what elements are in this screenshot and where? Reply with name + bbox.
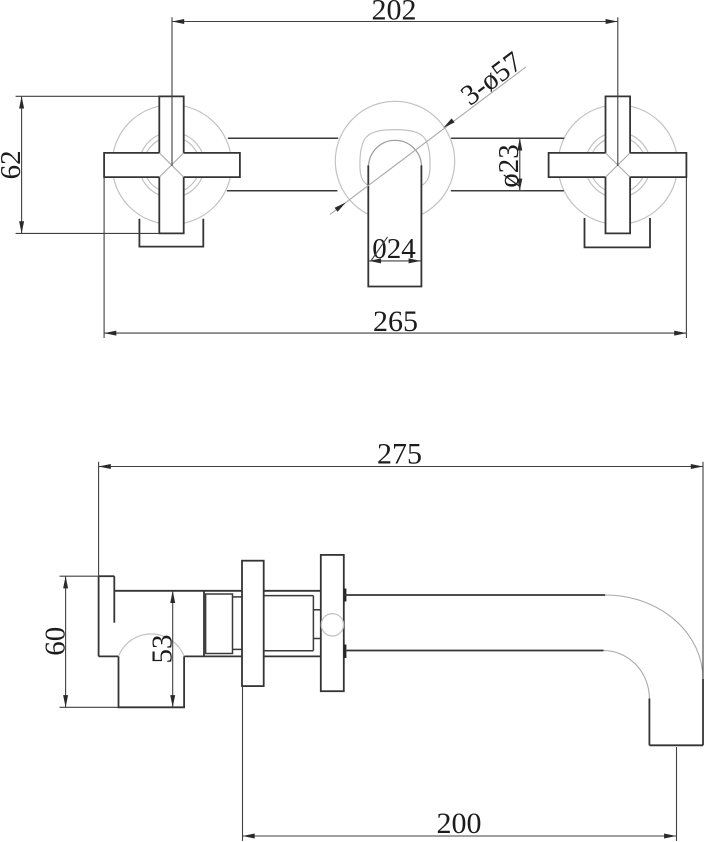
dimension 200 left arrow	[243, 834, 255, 839]
dimension 60 bottom extension line	[60, 706, 119, 708]
dimension 265 left arrow	[104, 331, 116, 336]
dimension 275 line	[99, 466, 703, 468]
valve lower block	[119, 656, 185, 707]
svg-text:62: 62	[0, 150, 27, 179]
dimension o23 bottom arrow	[517, 179, 522, 191]
dimension 200 right extension line	[676, 747, 678, 841]
left handle lower bracket	[139, 219, 203, 247]
svg-text:200: 200	[437, 807, 482, 840]
svg-text:202: 202	[372, 0, 417, 27]
dimension 202 left arrow	[172, 19, 184, 24]
svg-text:60: 60	[40, 627, 72, 656]
wall flange 2 rectangle	[321, 555, 344, 691]
dimension o24 text	[371, 233, 416, 265]
spout tube top edge	[344, 594, 605, 596]
valve tube top edge	[264, 590, 321, 592]
dimension 275 left extension line	[98, 462, 100, 577]
spout tube rectangle o24	[368, 165, 421, 286]
valve tube inner end cap	[312, 596, 314, 651]
dimension 202 right arrow	[606, 19, 618, 24]
valve tube bottom edge	[264, 655, 321, 657]
dimension 60 bottom arrow	[63, 695, 68, 707]
wall flange 1 rectangle	[242, 561, 264, 686]
valve body top edge	[99, 575, 115, 577]
svg-text:53: 53	[147, 635, 179, 664]
dimension o23 bottom extension line	[451, 190, 525, 192]
right handle cross body	[549, 96, 687, 233]
spout tip left edge	[648, 699, 650, 746]
svg-text:265: 265	[373, 305, 418, 338]
connecting bar bottom edge right segment	[451, 190, 564, 192]
left handle trim ring inner	[144, 137, 200, 193]
valve tube inner bottom edge	[264, 650, 314, 652]
dimension 265 left extension line	[103, 177, 105, 338]
spout tip bottom edge	[649, 744, 703, 746]
valve tube neck top edge	[313, 609, 320, 611]
dimension 62 top extension line	[16, 95, 160, 97]
dimension 265 right arrow	[674, 331, 686, 336]
dimension 60 top extension line	[60, 575, 99, 577]
dimension o23 top arrow	[517, 138, 522, 150]
dimension 53 bottom arrow	[170, 695, 175, 707]
dimension 275 right arrow	[691, 464, 703, 469]
valve tube inner top edge	[264, 595, 314, 597]
right handle cross centre diagonals	[606, 153, 631, 177]
left handle cross body	[104, 96, 240, 233]
dimension 202 line	[172, 21, 618, 23]
dimension 275 right extension line	[702, 462, 704, 679]
flange 2 gasket mark upper	[344, 589, 347, 602]
svg-text:275: 275	[377, 438, 422, 471]
valve housing bottom edge left segment	[99, 655, 119, 657]
dimension 265 right extension line	[685, 177, 687, 338]
left handle trim ring outer	[139, 132, 204, 197]
right handle trim ring outer	[585, 132, 650, 197]
dimension 200 line	[243, 835, 677, 837]
left handle cross centre diagonals	[159, 153, 183, 177]
dimension o23 line	[519, 138, 521, 191]
svg-text:ø23: ø23	[493, 144, 525, 188]
dimension 53 top arrow	[170, 591, 175, 603]
leader line 3-o57	[330, 67, 526, 215]
dimension 53 line	[172, 591, 174, 708]
spout bend outer arc	[605, 595, 703, 679]
cartridge rectangle	[206, 594, 233, 654]
dimension o24 left arrow	[369, 258, 381, 263]
spout collar outline	[360, 130, 430, 186]
spout tube bottom edge	[346, 650, 603, 652]
spout tube base circle o24	[369, 140, 422, 165]
leader 3-o57 lower arrow	[335, 203, 346, 212]
dimension 202 right extension line	[617, 17, 619, 166]
leader 3-o57 upper arrow	[443, 118, 454, 127]
cartridge housing divider	[203, 591, 205, 657]
dimension 60 line	[65, 576, 67, 707]
dimension 275 left arrow	[99, 464, 111, 469]
flange 2 gasket mark lower	[344, 645, 347, 659]
valve body round boss arc	[119, 634, 185, 656]
dimension 62 bottom extension line	[16, 232, 160, 234]
spout tip right edge	[702, 679, 704, 745]
right handle escutcheon circle o57	[558, 105, 678, 225]
left handle escutcheon circle o57	[112, 105, 232, 225]
valve tube neck bottom edge	[313, 638, 320, 640]
cartridge neck top edge	[233, 596, 243, 598]
dimension 200 left extension line	[242, 686, 244, 841]
right handle trim ring inner	[590, 137, 646, 193]
spout bend inner arc	[604, 651, 650, 699]
spout escutcheon circle o57	[335, 101, 454, 220]
dimension 62 bottom arrow	[19, 221, 24, 233]
flange 2 set screw circle	[321, 614, 343, 636]
dimension 62 line	[21, 96, 23, 233]
connecting bar bottom edge left segment	[227, 190, 338, 192]
dimension 202 left extension line	[171, 17, 173, 166]
dimension o24 right arrow	[409, 258, 421, 263]
dimension 200 right arrow	[664, 834, 676, 839]
valve body back edge	[98, 576, 100, 656]
right handle lower bracket	[585, 218, 651, 247]
valve body front upper edge	[113, 576, 115, 623]
dimension 60 top arrow	[63, 576, 68, 588]
dimension o23 top extension line	[451, 137, 525, 139]
dimension o24 line	[368, 260, 421, 262]
valve housing bottom edge right segment	[184, 655, 242, 657]
dimension 62 top arrow	[19, 96, 24, 108]
dimension 265 line	[104, 332, 686, 334]
valve housing top edge	[114, 590, 242, 592]
cartridge neck bottom edge	[233, 648, 243, 650]
connecting bar top edge left segment	[228, 137, 338, 139]
connecting bar top edge right segment	[451, 137, 564, 139]
